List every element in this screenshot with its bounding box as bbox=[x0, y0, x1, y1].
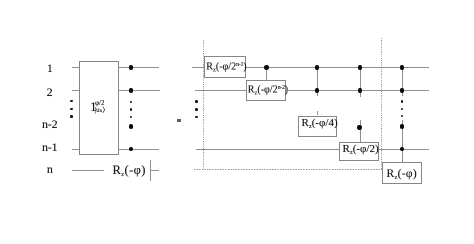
control dot q1 (left circuit) bbox=[129, 65, 134, 70]
ellipsis dots on column 4 bbox=[401, 100, 404, 103]
equals sign between circuits bbox=[177, 119, 181, 122]
wire q2 left segment (right circuit) bbox=[195, 90, 246, 91]
gate box Rz(-phi/4) on qubit n-2 bbox=[298, 116, 337, 137]
gate label 1^(phi/2)_|u n> inside box U1 bbox=[90, 101, 96, 114]
qubit label 1 (left circuit) bbox=[47, 62, 53, 74]
wire q1 left stub (right circuit) bbox=[192, 67, 204, 68]
wire q1 right of box (right circuit) bbox=[246, 67, 429, 68]
wire qn right stub (left circuit) bbox=[150, 170, 159, 171]
qubit label n-2 (left circuit) bbox=[42, 118, 57, 130]
wire q2 right of box (right circuit) bbox=[286, 90, 430, 91]
qubit label 2 (left circuit) bbox=[47, 86, 53, 98]
connector column 3: q1,q2,qn-2 controls to Rz(-phi/2) bbox=[360, 68, 361, 97]
gate box Rz(-phi/2^(n-2)) on qubit 2 bbox=[246, 80, 286, 101]
connector column 1: q1 control to Rz(-phi/2^(n-2)) bbox=[266, 68, 267, 80]
control dot qn-1 column 4 bbox=[400, 147, 405, 152]
gate box Rz(-phi/2) on qubit n-1 bbox=[339, 142, 379, 160]
control dot q2 column 2 bbox=[315, 88, 320, 93]
wire q1 right of box U1 (left circuit) bbox=[119, 67, 160, 68]
qubit label n-1 (left circuit) bbox=[42, 141, 57, 153]
control dot q1 column 4 bbox=[400, 65, 405, 70]
ellipsis dots between labels 2 and n-2 (left circuit) bbox=[70, 100, 73, 103]
dashed box left edge bbox=[203, 40, 204, 170]
control dot q2 column 4 bbox=[400, 88, 405, 93]
gate box U1 : identity/phase block spanning qubits 1..n-1 bbox=[79, 61, 119, 155]
ellipsis dots on control column (left circuit) bbox=[130, 101, 133, 104]
dashed box right edge bbox=[381, 38, 382, 169]
wire q1 left stub into box (left circuit) bbox=[72, 67, 79, 68]
gate box Rz(-phi/2^(n-1)) on qubit 1 bbox=[204, 56, 246, 79]
wire qn-1 left segment (right circuit) bbox=[196, 149, 339, 150]
wire qn-1 right of box U1 (left circuit) bbox=[119, 149, 159, 150]
control dot q1 column 2 bbox=[315, 65, 320, 70]
connector column 4: q1,q2,qn-2,qn-1 controls to Rz(-phi) bbox=[402, 68, 403, 97]
gate label Rz(-phi) on qubit n (left circuit) bbox=[113, 164, 146, 179]
control dot q1 column 3 bbox=[358, 65, 363, 70]
control dot qn-1 (left circuit) bbox=[129, 147, 134, 152]
control dot q2 (left circuit) bbox=[129, 88, 134, 93]
connector column 2: q1,q2 controls to Rz(-phi/4) bbox=[317, 68, 318, 97]
dashed box bottom edge bbox=[194, 169, 382, 170]
ellipsis dots left margin (right circuit) bbox=[195, 100, 198, 103]
wire q2 right of box U1 (left circuit) bbox=[119, 90, 160, 91]
wire qn left segment (left circuit) bbox=[72, 170, 104, 171]
wire qn-1 left stub into box (left circuit) bbox=[72, 149, 79, 150]
control dot qn-2 column 4 bbox=[400, 124, 405, 129]
control dot qn-2 column 3 bbox=[357, 125, 362, 130]
control dot q1 column 1 bbox=[264, 65, 269, 70]
wire q2 left stub into box (left circuit) bbox=[72, 90, 79, 91]
control dot q2 column 3 bbox=[358, 88, 363, 93]
control dot qn-2 (left circuit) bbox=[129, 124, 134, 129]
qubit label n (left circuit) bbox=[47, 163, 53, 175]
wire qn-1 right of box (right circuit) bbox=[379, 149, 430, 150]
gate box Rz(-phi) on qubit n (right circuit) bbox=[382, 162, 422, 183]
target tick bar after Rz(-phi) (left circuit) bbox=[150, 160, 151, 181]
